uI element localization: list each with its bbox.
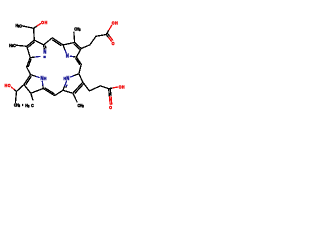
ring C bond a2=N bbox=[63, 86, 65, 90]
ring D bond b1-b2 bbox=[24, 85, 31, 94]
top C-OH bbox=[106, 30, 109, 35]
bond SE b1-CH2 bbox=[83, 82, 90, 91]
svg-text:H: H bbox=[5, 83, 8, 89]
ring C bond a1-b1 bbox=[79, 74, 83, 83]
porphyrin structure diagram (hematoporphyrin) bbox=[0, 0, 130, 130]
ring C bond N-a1 bbox=[71, 76, 75, 77]
bond CH-OH bbox=[34, 26, 37, 28]
ring A bond C1-N bbox=[30, 56, 35, 59]
bond C2-CH3 bbox=[16, 45, 27, 46]
bond SE b2-CH3 bbox=[73, 93, 77, 102]
bond CH2-COOH bottom bbox=[100, 86, 108, 89]
ring B bond a2-N bbox=[73, 56, 76, 59]
svg-text:C: C bbox=[31, 102, 34, 108]
ring A bond C2-C1 bbox=[27, 46, 30, 57]
bond NE b2-CH2 bbox=[81, 45, 90, 49]
ring B bond N-a1 bbox=[65, 49, 66, 53]
meso bridge SW a2=CHB bbox=[43, 89, 54, 96]
ring A bond N=C4 bbox=[43, 48, 45, 50]
svg-text:H: H bbox=[122, 84, 125, 90]
meso bridge NE a2=CHR bbox=[76, 57, 81, 64]
top C=O bbox=[106, 35, 109, 38]
bond NE b1-CH3 bbox=[73, 32, 76, 42]
ring A bond C3=C2 bbox=[27, 40, 35, 46]
meso bridge CHB-SE alpha2 bbox=[55, 90, 63, 95]
svg-text:H: H bbox=[115, 20, 118, 26]
ring D bond a2-N bbox=[42, 85, 44, 89]
svg-text:C: C bbox=[19, 23, 22, 29]
meso bridge C1=CHL bbox=[27, 58, 31, 67]
ring C bond b2-a2 bbox=[63, 90, 73, 93]
bond CH-CH3 bbox=[22, 26, 33, 28]
bond SW b2-CH3 bbox=[31, 93, 33, 100]
meso bridge CHR-SE alpha1 bbox=[79, 64, 81, 73]
bond CH2-CH2 top bbox=[90, 36, 96, 45]
meso bridge C4-CHT bbox=[44, 38, 53, 45]
svg-text:3: 3 bbox=[79, 28, 81, 32]
ring B bond b2-a2 bbox=[76, 49, 81, 58]
ring B bond a1-b1 bbox=[63, 43, 75, 45]
ring A N-H mark bbox=[43, 56, 45, 58]
ring A bond C4-C3 bbox=[34, 40, 43, 45]
ring D bond b2-a2 bbox=[31, 89, 43, 94]
bond CH2-COOH top bbox=[96, 35, 106, 37]
bond CH-HO (SW) bbox=[14, 89, 16, 91]
bond SW b1-CH(OH) bbox=[17, 85, 24, 92]
ring D bond a1=b1 bbox=[24, 75, 31, 85]
svg-text:H: H bbox=[44, 76, 47, 82]
meso bridge CHT=NE alpha1 bbox=[52, 38, 63, 45]
ring B bond b1=b2 bbox=[75, 43, 82, 49]
bottom C=O bbox=[108, 89, 111, 97]
svg-text:3: 3 bbox=[82, 104, 84, 108]
svg-text:3: 3 bbox=[19, 104, 21, 108]
svg-text:3: 3 bbox=[28, 104, 30, 108]
bond C3-CH(OH) bbox=[33, 28, 36, 40]
svg-text:C: C bbox=[13, 42, 16, 48]
svg-text:H: H bbox=[45, 20, 48, 26]
bond CH-CH3 (SW) bbox=[15, 92, 16, 103]
ring D bond N-a1 bbox=[35, 76, 39, 77]
bottom C-OH bbox=[109, 87, 113, 90]
meso bridge CHL-SW alpha1 bbox=[27, 67, 31, 75]
ring C bond b1=b2 bbox=[73, 82, 83, 93]
bond CH2-CH2 bottom bbox=[89, 86, 100, 91]
